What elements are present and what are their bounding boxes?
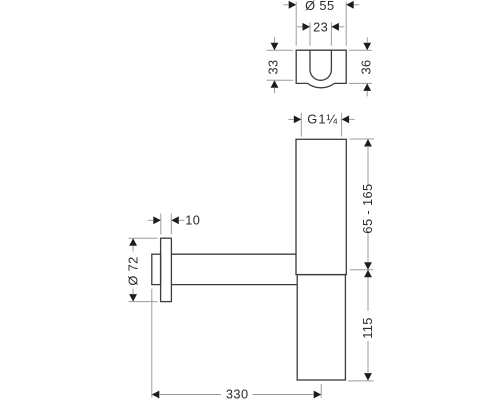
svg-text:23: 23 <box>313 20 328 35</box>
svg-text:33: 33 <box>265 59 280 74</box>
svg-text:G1¼: G1¼ <box>307 111 338 126</box>
svg-text:Ø 72: Ø 72 <box>125 256 140 285</box>
svg-text:115: 115 <box>360 317 375 339</box>
svg-text:330: 330 <box>226 387 249 400</box>
svg-text:10: 10 <box>185 213 200 228</box>
svg-text:Ø 55: Ø 55 <box>305 0 334 13</box>
svg-text:65 - 165: 65 - 165 <box>360 183 375 233</box>
svg-text:36: 36 <box>359 59 374 74</box>
